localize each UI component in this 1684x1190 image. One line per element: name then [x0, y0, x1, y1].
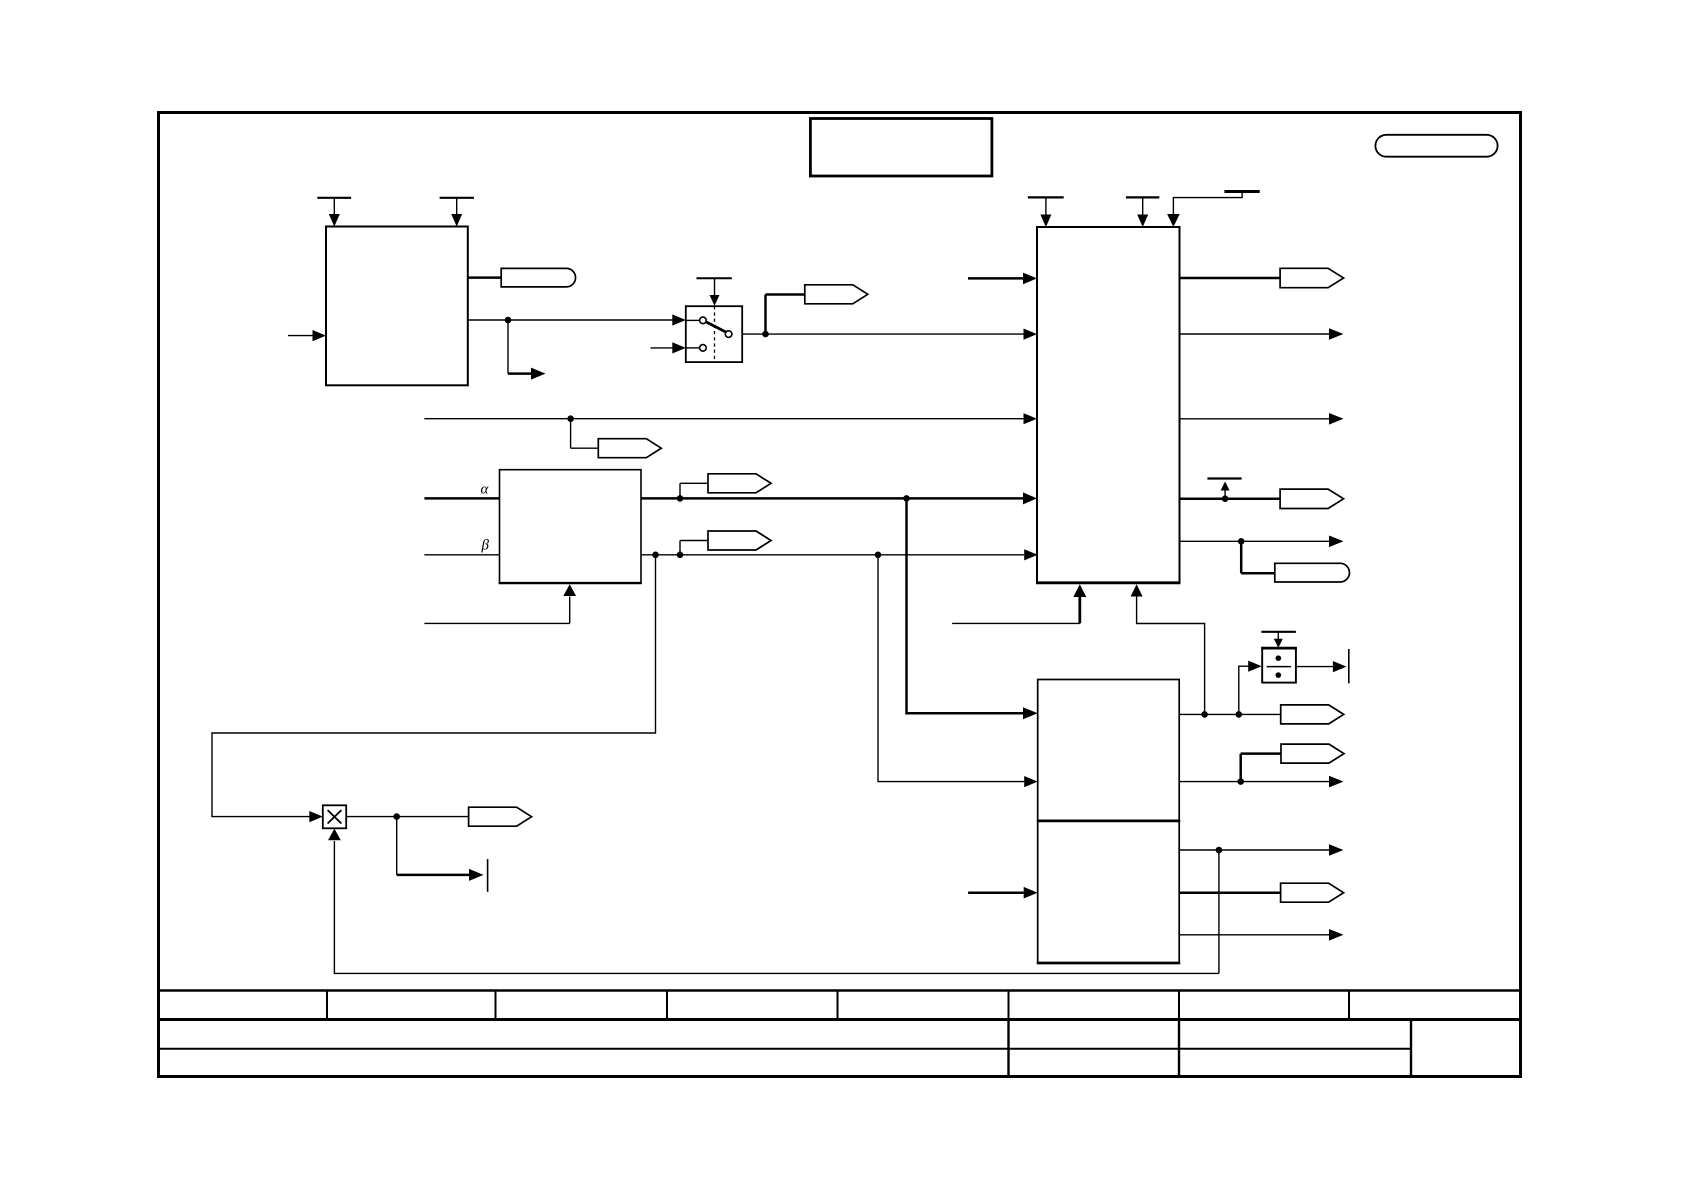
binector T-bar D3 top right: [1167, 192, 1260, 228]
divider dots and bar: [1267, 655, 1292, 677]
switch dashed divider: [714, 306, 716, 362]
junction beta down branch: [652, 552, 659, 559]
junction U2: [1237, 778, 1244, 785]
block C input 3 wire: [968, 887, 1038, 899]
junction alpha flag: [677, 495, 684, 502]
feedback wire bottom: [328, 829, 1219, 974]
junction U1 b: [1236, 711, 1243, 718]
multiplier X: [328, 810, 342, 823]
switch U1 box: [686, 306, 742, 362]
parameter T-bar D1: [1028, 197, 1064, 227]
junction multiplier output: [393, 813, 400, 820]
block C output L2 flag P9: [1179, 883, 1343, 902]
switch input 2 wire: [651, 342, 686, 353]
alpha branch wire to block C input 1: [907, 498, 1038, 719]
parameter T-bar divider: [1261, 632, 1296, 648]
block B (coordinate transform): [500, 470, 642, 583]
switch output wire to block D: [742, 329, 1037, 340]
block A (setpoint channel): [326, 227, 468, 386]
branch L1 down to feedback: [1218, 850, 1220, 973]
block B bold bottom edge: [499, 582, 642, 584]
connector flag P8: [1241, 744, 1344, 782]
parameter T-bar A1: [317, 198, 351, 227]
switch contact stubs: [686, 320, 700, 348]
block C output U2 arrow: [1179, 776, 1343, 788]
block D bottom feed 2: [1131, 584, 1205, 714]
block D bold bottom edge: [1036, 581, 1181, 584]
junction on A output: [505, 317, 512, 324]
junction U1 a: [1201, 711, 1208, 718]
alpha input wire: [424, 497, 499, 500]
alpha output wire to block D: [641, 492, 1037, 504]
switch contact circles: [700, 317, 732, 351]
parameter T-bar A2: [440, 198, 474, 227]
block D input 1 wire: [968, 273, 1037, 285]
table header column dividers: [327, 991, 1349, 1020]
frame border: [159, 113, 1521, 1077]
up arrow to T-bar on output 4: [1207, 479, 1241, 498]
block C output L1 arrow: [1179, 844, 1343, 856]
block D output 2 arrow: [1180, 328, 1344, 340]
block D output 1 flag P5: [1180, 268, 1344, 287]
connector flag P3: [680, 474, 771, 499]
divider box bold top: [1261, 647, 1297, 650]
input wire into block A: [288, 330, 326, 341]
multiplier branch arrow to terminal bar: [397, 817, 488, 892]
switch lever: [706, 322, 726, 332]
wire y419 to block D: [424, 413, 1037, 424]
multiplier output wire: [346, 816, 468, 818]
beta branch wire to block C input 2: [878, 555, 1038, 787]
wire to divider box: [1239, 661, 1262, 715]
block B bottom arrow wire: [424, 584, 576, 623]
stadium label top right: [1375, 135, 1497, 157]
block C (modulator): [1038, 680, 1180, 964]
connector flag P10: [469, 807, 532, 826]
beta input wire: [424, 554, 499, 556]
table top line: [159, 989, 1520, 991]
branch arrow from A output: [508, 320, 546, 380]
connector flag P4: [680, 531, 771, 555]
title box: [810, 119, 992, 177]
block D output 3 arrow: [1180, 413, 1344, 425]
block D output 5 arrow: [1180, 536, 1344, 548]
svg-text:β: β: [481, 538, 490, 554]
multiplier box: [323, 805, 346, 828]
wire block A to switch: [468, 314, 686, 325]
svg-text:α: α: [481, 482, 490, 498]
beta output wire to block D: [641, 549, 1038, 560]
connector flag P6: [1280, 489, 1344, 508]
junction output 5: [1238, 538, 1245, 545]
table row3 line: [159, 1048, 1412, 1050]
junction on switch output: [762, 331, 769, 338]
block C divider: [1037, 820, 1180, 823]
table lower column dividers: [1009, 1020, 1412, 1077]
parameter T-bar D2: [1126, 197, 1159, 227]
block C output U1 wire: [1179, 713, 1281, 715]
rounded connector flag R1: [468, 268, 576, 287]
block D output 4 wire: [1180, 497, 1281, 500]
junction on wire y419: [567, 415, 574, 422]
junction beta flag: [677, 552, 684, 559]
parameter T-bar switch: [697, 278, 732, 305]
block C bold bottom edge: [1037, 962, 1180, 965]
junction output 4: [1222, 495, 1229, 502]
block C output L3 arrow: [1179, 929, 1343, 941]
junction L1: [1216, 847, 1223, 854]
beta branch wire to multiplier: [212, 555, 656, 822]
junction beta branch2: [875, 552, 882, 559]
connector flag P2: [571, 419, 662, 458]
divider box: [1262, 648, 1296, 683]
junction alpha branch: [903, 495, 910, 502]
table mid thick line: [159, 1018, 1520, 1021]
rounded connector flag R2: [1241, 541, 1349, 582]
block D (current controller): [1037, 227, 1180, 583]
divider output to terminal bar: [1296, 649, 1349, 683]
connector flag P1: [766, 285, 868, 334]
block D bottom feed 1: [952, 584, 1086, 623]
connector flag P7: [1281, 705, 1344, 724]
